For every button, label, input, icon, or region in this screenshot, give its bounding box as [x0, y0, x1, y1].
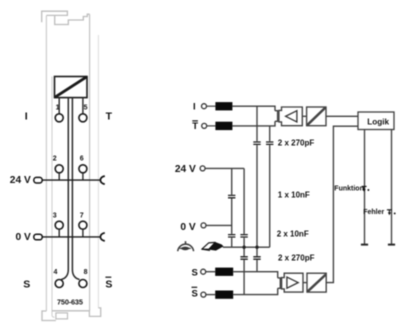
0V terminal — [201, 223, 206, 228]
svg-text:24 V: 24 V — [175, 164, 196, 175]
junction dot A — [242, 246, 245, 249]
wire S to driver — [233, 272, 278, 278]
wire T to receiver — [232, 121, 275, 126]
svg-text:Fehler: Fehler — [363, 209, 384, 216]
Funktion line end bar — [361, 244, 368, 246]
0V spade ring — [34, 234, 42, 240]
svg-text:5: 5 — [84, 104, 88, 111]
filter choke L2 (T line) — [215, 122, 232, 130]
stub circle6 to 24V wire — [82, 173, 84, 180]
isolator U5 box — [307, 273, 326, 292]
terminal circle 2 — [55, 165, 63, 173]
housing inner-left line — [52, 77, 55, 318]
0V clamp hook — [100, 233, 104, 241]
input terminal T-bar — [202, 123, 207, 128]
receiver U2 box with socket notch — [279, 107, 302, 126]
capacitor C6 plates (270pF on S) — [240, 257, 247, 259]
svg-text:S: S — [105, 278, 112, 290]
filter choke L1 (I line) — [215, 102, 232, 110]
svg-text:0 V: 0 V — [180, 222, 195, 233]
svg-text:1 x 10nF: 1 x 10nF — [278, 191, 310, 200]
svg-text:1: 1 — [56, 104, 60, 111]
housing bottom ledge — [52, 308, 101, 317]
junction dot B — [255, 246, 258, 249]
svg-text:6: 6 — [80, 156, 84, 163]
svg-text:4: 4 — [54, 269, 58, 276]
wire I terminal to filter — [207, 105, 216, 107]
Fehler line end bar — [388, 244, 395, 246]
S-bar terminal — [201, 292, 206, 297]
terminal circle 3 — [55, 221, 63, 229]
svg-text:S: S — [23, 278, 30, 290]
shield clamp wedge — [202, 242, 223, 250]
net V4: T-cap line x=269.7 — [269, 126, 271, 247]
0V wire — [206, 224, 232, 226]
svg-text:8: 8 — [84, 269, 88, 276]
Fehler signal line — [391, 130, 393, 245]
housing bottom notch rect — [56, 313, 68, 319]
Logik block — [358, 112, 394, 130]
svg-text:S: S — [192, 289, 198, 300]
terminal circle 5 — [79, 114, 87, 122]
wire S-bar to driver — [233, 288, 278, 294]
housing outer-right faint edge — [97, 35, 99, 308]
housing bottom-left foot — [42, 311, 56, 321]
housing left edge — [45, 15, 47, 311]
wire S-bar terminal to filter — [206, 294, 215, 296]
input terminal I — [202, 104, 207, 109]
svg-text:0 V: 0 V — [16, 232, 31, 243]
terminal circle 7 — [79, 221, 87, 229]
svg-text:2: 2 — [53, 156, 57, 163]
Funktion signal line — [364, 130, 366, 245]
capacitor C5 plates (10nF) — [240, 235, 247, 237]
shield symbol — [178, 241, 194, 251]
svg-text:2 x 10nF: 2 x 10nF — [277, 229, 309, 238]
connector box U1 — [55, 77, 88, 98]
driver U4 box with socket notch — [282, 273, 303, 292]
svg-text:S: S — [192, 268, 198, 279]
shield bus — [223, 246, 270, 248]
net V2: 24V corner drop line x=244.1 — [243, 168, 245, 294]
overline of S-bar — [105, 276, 111, 278]
isolator U5 diagonal — [307, 275, 325, 292]
svg-text:2 x 270pF: 2 x 270pF — [278, 253, 315, 262]
receiver U2 triangle — [286, 111, 297, 122]
terminal circle 8 — [79, 280, 87, 288]
svg-text:Logik: Logik — [367, 117, 389, 126]
svg-text:T: T — [192, 121, 198, 132]
wire: internal pair right — [72, 98, 79, 280]
capacitor C4 plates (10nF) — [228, 235, 235, 237]
stub circle7 to 0V wire — [82, 229, 84, 237]
connector box diagonal — [55, 77, 87, 98]
wire I to receiver — [232, 106, 275, 111]
stub circle2 to 24V wire — [58, 173, 60, 180]
terminal circle 1 — [55, 114, 63, 122]
housing right line — [89, 14, 91, 311]
24V field wire — [42, 179, 100, 181]
svg-text:I: I — [25, 111, 28, 123]
wire: internal pair left — [61, 98, 68, 280]
svg-text:24 V: 24 V — [10, 175, 31, 186]
24V spade ring — [34, 177, 42, 183]
wire S terminal to filter — [206, 271, 216, 273]
filter choke L3 (S line) — [215, 268, 233, 276]
wire isolator2 to Logik (up the right side) — [326, 126, 358, 282]
housing top step profile — [55, 14, 90, 24]
driver plug tab (bottom) — [278, 278, 281, 288]
svg-text:3: 3 — [53, 212, 57, 219]
svg-text:7: 7 — [80, 212, 84, 219]
receiver plug tab (top) — [275, 111, 278, 122]
capacitor C1 plates (270pF on I) — [253, 142, 260, 144]
wire receiver to isolator — [302, 115, 306, 117]
stub circle3 to 0V wire — [58, 229, 60, 237]
pin stub 5 — [82, 98, 84, 114]
24V wire — [205, 167, 244, 169]
driver U4 triangle — [287, 277, 298, 288]
svg-text:2 x 270pF: 2 x 270pF — [278, 138, 315, 147]
wire T terminal to filter — [207, 125, 216, 127]
24V clamp hook — [100, 176, 104, 184]
housing top profile — [42, 11, 68, 22]
isolator U3 diagonal — [307, 107, 326, 125]
Funktion LED glyph — [362, 186, 367, 190]
svg-text:750-635: 750-635 — [57, 297, 83, 306]
svg-text:Funktion: Funktion — [334, 185, 364, 192]
24V terminal — [200, 166, 205, 171]
filter choke L4 (S-bar line) — [215, 291, 233, 299]
isolator U3 box — [307, 107, 326, 126]
Fehler LED glyph — [387, 210, 392, 214]
net V3: I-cap line x=257 — [256, 106, 258, 271]
net V1: 24V drop line x=231.7 — [231, 168, 233, 247]
capacitor C2 plates (270pF on T) — [266, 142, 273, 144]
wire isolator to Logik — [326, 115, 358, 117]
svg-text:T: T — [106, 111, 113, 123]
capacitor C3 plates (1x10nF) — [228, 195, 235, 197]
pin stub 1 — [58, 98, 60, 114]
capacitor C7 plates (270pF on S-bar) — [253, 257, 260, 259]
svg-text:I: I — [193, 102, 196, 113]
terminal circle 6 — [79, 165, 87, 173]
terminal circle 4 — [55, 280, 63, 288]
wire driver to isolator2 — [303, 282, 307, 284]
0V field wire — [42, 236, 100, 238]
S terminal — [201, 269, 206, 274]
